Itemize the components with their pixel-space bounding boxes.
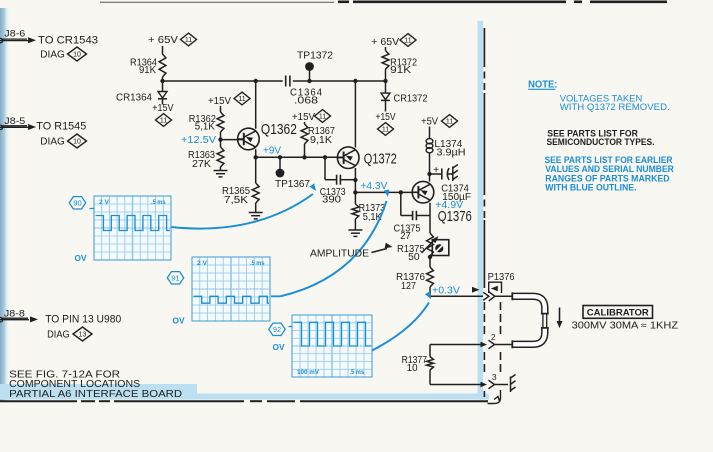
wire +5V to L1374 <box>429 127 431 139</box>
diamond 11 (+65V R1372) <box>400 34 416 47</box>
resistor R1377 <box>429 345 431 357</box>
svg-text:TO R1545: TO R1545 <box>36 121 86 133</box>
svg-text:+15V: +15V <box>152 103 174 114</box>
node R1375 bottom junction <box>428 255 432 259</box>
svg-text:300MV 30MA ≈ 1KHZ: 300MV 30MA ≈ 1KHZ <box>572 321 679 332</box>
node J8-5 entry <box>0 125 3 129</box>
svg-text:.5 ms: .5 ms <box>151 199 166 206</box>
wire L1374 to collector <box>429 153 431 182</box>
svg-text:+12.5V: +12.5V <box>181 135 216 146</box>
svg-text:2 V: 2 V <box>99 199 110 206</box>
svg-text:90: 90 <box>73 198 81 207</box>
svg-text:91K: 91K <box>139 65 156 76</box>
svg-text:OV: OV <box>173 316 185 326</box>
diamond 11 (+65V left) <box>181 33 197 46</box>
svg-text:SEMICONDUCTOR TYPES.: SEMICONDUCTOR TYPES. <box>547 137 655 148</box>
wire Q1372 emitter <box>354 168 356 192</box>
node Q1372 collector junction <box>353 79 357 83</box>
wire +15V to R1362 <box>220 106 222 112</box>
svg-text:J8-6: J8-6 <box>4 29 25 40</box>
svg-text:11: 11 <box>319 114 326 121</box>
svg-text:9,1K: 9,1K <box>310 135 333 146</box>
node rail-left junction <box>160 79 164 83</box>
arrow AMPLITUDE to R1375 <box>372 249 388 253</box>
coax cable loop pin1-pin2 <box>513 296 545 344</box>
capacitor C1373 <box>324 157 326 179</box>
resistor R1372 <box>385 47 387 51</box>
svg-text:P1376: P1376 <box>488 272 516 283</box>
svg-text:PARTIAL A6 INTERFACE BOAR: PARTIAL A6 INTERFACE BOARD <box>9 388 182 400</box>
svg-text:+9V: +9V <box>263 146 281 157</box>
svg-text:50: 50 <box>408 252 420 263</box>
chassis ground (pin 3) <box>510 377 512 393</box>
resistor R1376 <box>429 257 431 267</box>
svg-text:TP1372: TP1372 <box>297 51 333 62</box>
node C1373 emitter junction <box>353 178 357 182</box>
svg-text:WITH Q1372 REMOVED.: WITH Q1372 REMOVED. <box>560 102 670 113</box>
svg-text:Q1376: Q1376 <box>438 209 472 225</box>
ground (R1373) <box>354 219 356 230</box>
svg-text:100 mV: 100 mV <box>297 369 320 376</box>
svg-text:7,5K: 7,5K <box>224 195 249 206</box>
wire R1364 to rail <box>162 77 164 81</box>
svg-text:11: 11 <box>238 96 245 103</box>
blue arrow scope91 to +4.3V node <box>271 295 281 297</box>
wire R1367 to +9V rail <box>304 144 306 157</box>
svg-text:91: 91 <box>171 273 179 282</box>
resistor R1362 <box>217 112 224 132</box>
svg-text:11: 11 <box>446 119 453 126</box>
svg-text:390: 390 <box>322 195 342 206</box>
svg-text:11: 11 <box>404 38 411 45</box>
diode CR1372 <box>381 93 390 100</box>
wire CR1372 anode <box>385 81 387 93</box>
svg-text:TO PIN 13 U980: TO PIN 13 U980 <box>45 314 121 326</box>
svg-text:+ 65V: + 65V <box>148 34 178 46</box>
transistor Q1362 <box>238 128 260 150</box>
wire CR1364 to +15V <box>162 99 164 105</box>
ground (R1365) <box>255 203 257 212</box>
diamond 10 (J8-6 diag) <box>68 47 87 61</box>
diamond 11 (R1362 supply) <box>234 92 250 105</box>
chassis ground (C1374) <box>452 167 454 182</box>
svg-text:13: 13 <box>79 332 87 339</box>
svg-text:+5V: +5V <box>421 117 438 128</box>
transistor Q1376 <box>412 181 434 203</box>
node J8-8 entry <box>0 318 3 322</box>
svg-text:DIAG: DIAG <box>47 329 70 340</box>
diamond 11 (+15V CR1364) <box>156 114 172 127</box>
svg-text:127: 127 <box>401 281 416 292</box>
ground (R1363) <box>220 167 222 171</box>
wire Q1362 emitter to +9V node <box>255 149 257 157</box>
svg-text:TO CR1543: TO CR1543 <box>38 35 98 47</box>
svg-text:92: 92 <box>273 325 281 334</box>
blue arrow scope90 to +9V wire <box>172 194 314 229</box>
diamond 11 (R1367 supply) <box>315 110 331 123</box>
svg-text:CR1364: CR1364 <box>116 93 153 104</box>
svg-text:+0.3V: +0.3V <box>432 286 460 297</box>
node +4.3V junction <box>353 190 357 194</box>
test point TP1367 <box>279 157 281 169</box>
scope thumbnail 90 <box>94 196 171 260</box>
resistor R1365 <box>255 157 257 183</box>
svg-text:5,1K: 5,1K <box>195 121 215 132</box>
P1376 connector left line <box>483 28 485 60</box>
svg-text:2: 2 <box>491 332 496 342</box>
wire CR1372 to +15V <box>385 101 387 112</box>
variable resistor R1375 <box>427 233 434 256</box>
svg-text:10: 10 <box>73 139 81 146</box>
wire +9V rail <box>256 156 344 158</box>
signal direction marker <box>472 287 480 293</box>
node Q1362 collector junction <box>254 79 258 83</box>
page left edge band <box>0 8 9 402</box>
CALIBRATOR box <box>583 306 653 319</box>
wire CR1364 anode <box>162 81 164 92</box>
top border dashed line <box>100 1 334 3</box>
diamond 11 (+15V CR1372) <box>378 123 394 136</box>
diamond 11 (+5V) <box>442 115 458 128</box>
svg-text:CR1372: CR1372 <box>394 93 428 104</box>
inductor L1374 <box>426 139 433 153</box>
bottom dashed border line <box>0 400 77 402</box>
resistor R1364 <box>159 54 166 77</box>
svg-text:+4.3V: +4.3V <box>360 181 387 192</box>
svg-text:Q1362: Q1362 <box>261 122 297 138</box>
svg-text:91K: 91K <box>390 65 412 76</box>
wire base Q1362 <box>221 139 244 141</box>
wire +4.3V to Q1376 base <box>355 191 418 193</box>
node TP1372 junction <box>307 79 311 83</box>
svg-text:3.9µH: 3.9µH <box>437 148 466 159</box>
svg-text:Q1372: Q1372 <box>364 152 397 168</box>
svg-text:11: 11 <box>185 37 192 44</box>
resistor R1373 <box>354 192 356 204</box>
diamond 10 (J8-5 diag) <box>68 134 87 148</box>
svg-text:10: 10 <box>407 363 419 374</box>
hexagon 90 <box>69 197 85 209</box>
diamond 13 (J8-8 diag) <box>73 327 92 341</box>
svg-text:27: 27 <box>400 231 411 242</box>
node C1373 branch junction <box>323 155 327 159</box>
node C1374 junction <box>427 172 431 176</box>
svg-text:27K: 27K <box>192 159 212 170</box>
svg-text:WITH BLUE OUTLINE.: WITH BLUE OUTLINE. <box>545 183 636 194</box>
node C1375 branch junction <box>399 190 403 194</box>
svg-text:TP1367: TP1367 <box>275 179 310 190</box>
transistor Q1372 <box>337 147 359 169</box>
svg-text:DIAG: DIAG <box>40 50 65 61</box>
wire main rail <box>163 80 283 82</box>
svg-text:DIAG: DIAG <box>40 136 65 147</box>
wire R1372 to rail <box>385 69 387 81</box>
wire +65V to R1364 <box>162 46 164 54</box>
P1376 connector right line <box>500 302 502 336</box>
bottom blue highlight band <box>0 384 197 400</box>
resistor R1363 <box>217 147 224 167</box>
diode CR1364 <box>158 92 167 99</box>
node +9V junction <box>254 155 258 159</box>
svg-text:+15V: +15V <box>208 96 231 107</box>
P1376 polarity box <box>489 282 502 293</box>
wire Q1362 collector to rail <box>255 81 257 129</box>
node R1372 junction <box>383 79 387 83</box>
svg-text:OV: OV <box>273 342 285 352</box>
svg-text:.5 ms: .5 ms <box>350 369 365 376</box>
svg-text:2 V: 2 V <box>197 260 208 267</box>
hexagon 92 <box>269 323 285 335</box>
svg-text:11: 11 <box>160 118 167 125</box>
wire Q1376 emitter <box>429 203 431 233</box>
node Q1362 base junction +12.5V <box>220 132 222 147</box>
pin 1 of P1376 <box>483 292 489 300</box>
blue arrow scope92 to +0.3V node <box>372 303 429 351</box>
hexagon 91 <box>167 272 183 284</box>
svg-text:.068: .068 <box>294 96 319 107</box>
svg-text:CALIBRATOR: CALIBRATOR <box>587 307 649 318</box>
current direction arrow <box>559 308 561 323</box>
svg-text:11: 11 <box>382 127 389 134</box>
svg-text:OV: OV <box>75 253 87 263</box>
node R1367 junction <box>302 155 306 159</box>
svg-text:AMPLITUDE: AMPLITUDE <box>310 248 369 260</box>
svg-text:3: 3 <box>492 372 497 382</box>
capacitor C1364 <box>285 76 287 87</box>
svg-text:+15V: +15V <box>292 112 315 123</box>
scope thumbnail 91 <box>192 257 270 321</box>
resistor R1367 <box>304 122 306 124</box>
svg-text:10: 10 <box>73 52 81 59</box>
board edge blue band vertical <box>478 21 484 400</box>
svg-text:+ 65V: + 65V <box>371 36 399 48</box>
scope thumbnail 92 <box>292 315 372 377</box>
svg-text:+15V: +15V <box>376 112 396 123</box>
wire Q1372 collector to rail <box>354 81 356 148</box>
svg-text:.5 ms: .5 ms <box>250 260 265 267</box>
capacitor C1375 <box>400 192 402 215</box>
wire +0.3V output <box>429 287 431 296</box>
node J8-6 entry <box>0 38 3 42</box>
